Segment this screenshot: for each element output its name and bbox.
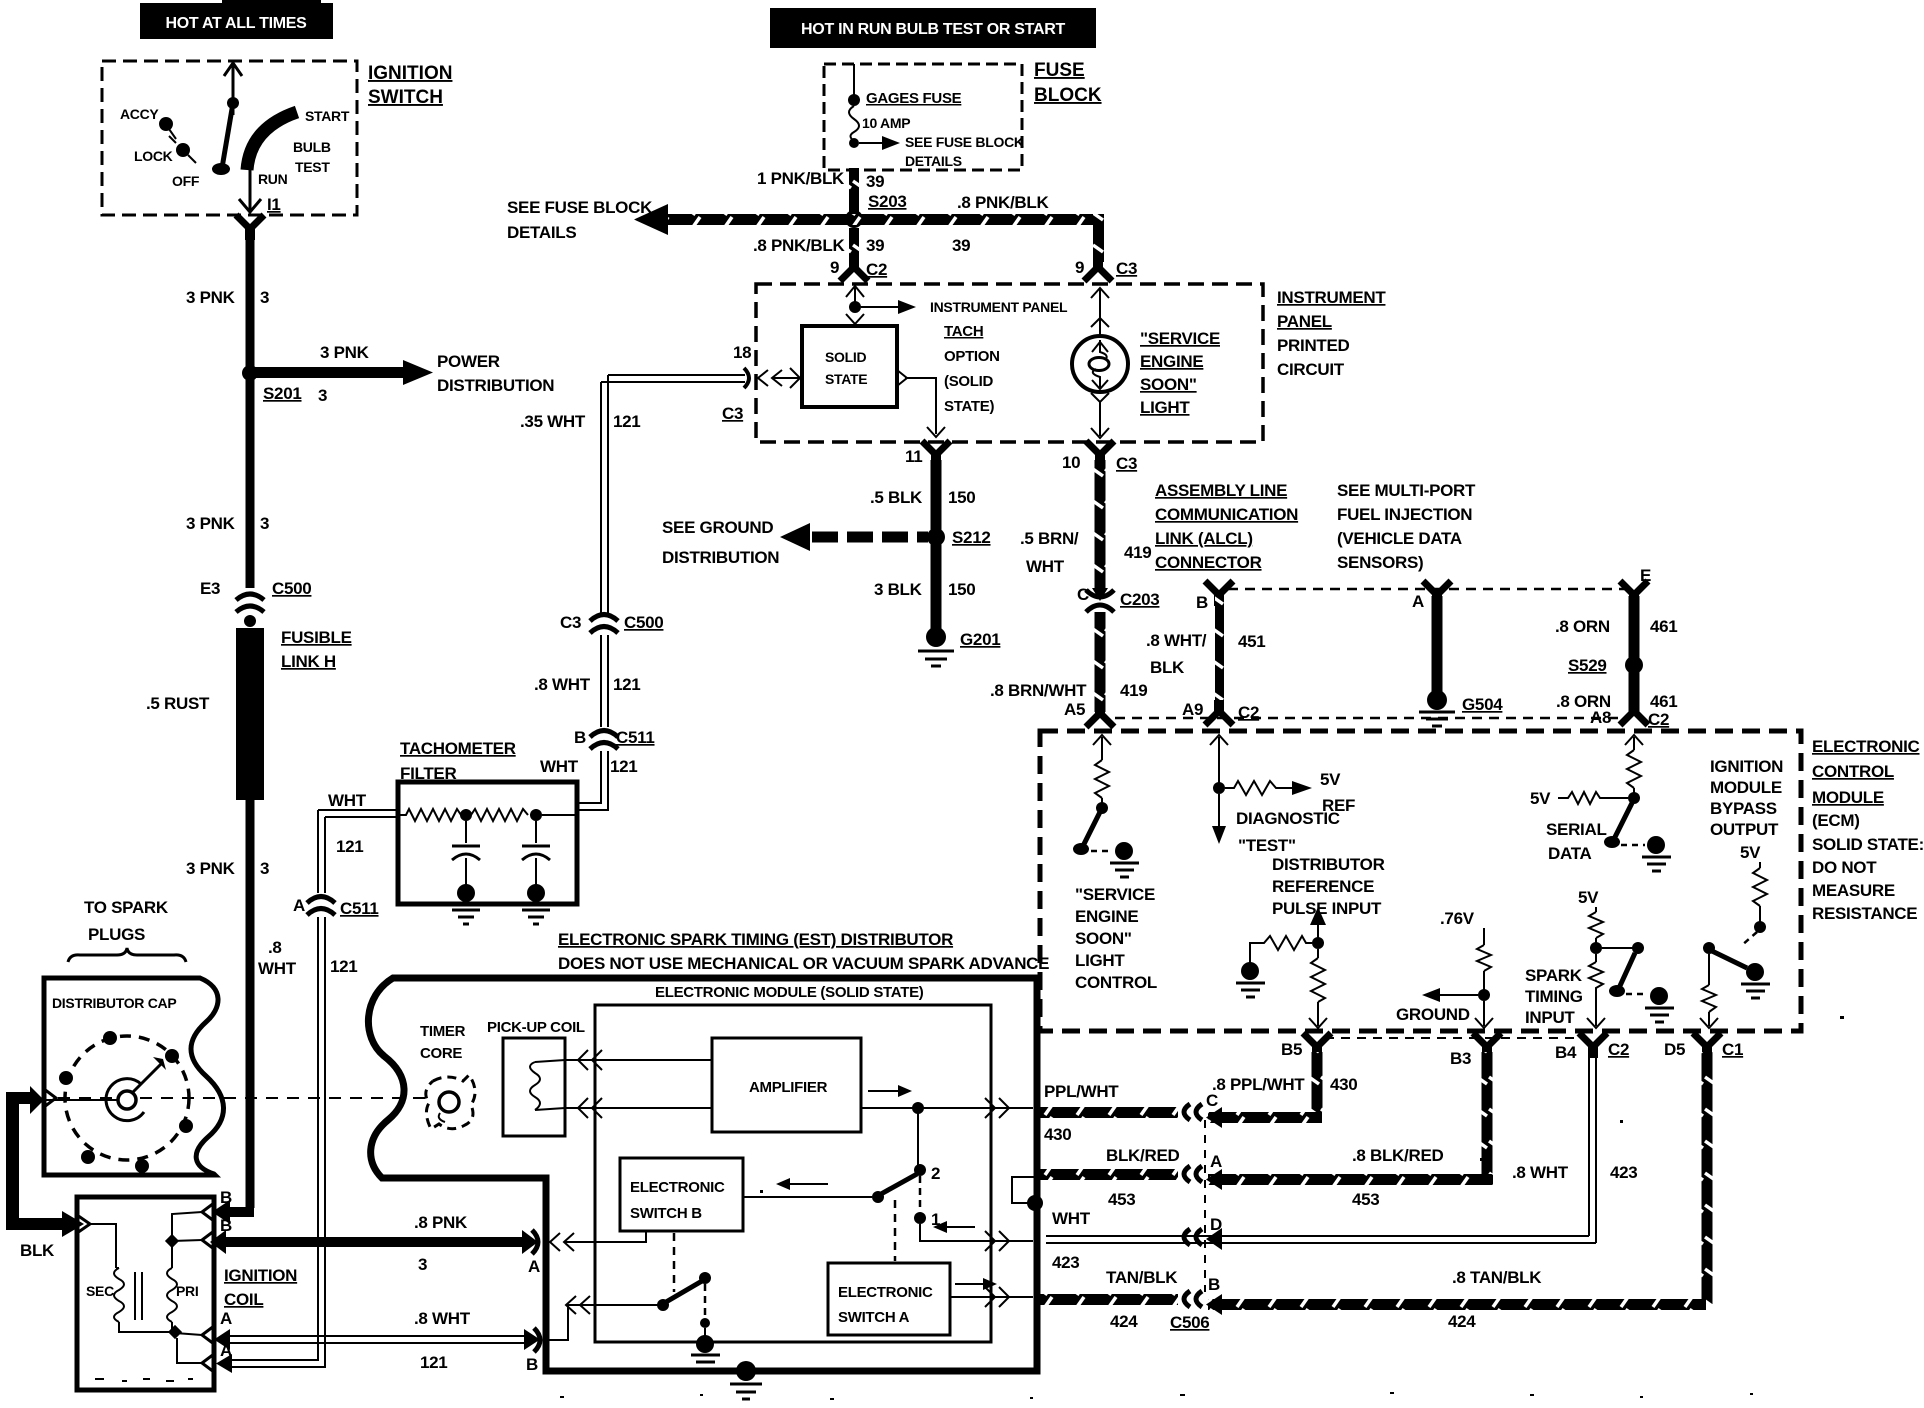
svg-text:9: 9 [830, 258, 839, 277]
switch contact 1 [914, 1176, 1033, 1251]
svg-text:C: C [1077, 585, 1089, 604]
ignition coil terminal A2 [177, 1338, 232, 1372]
ignition coil left entry chevron [77, 1215, 90, 1233]
svg-text:DISTRIBUTOR CAP: DISTRIBUTOR CAP [52, 995, 176, 1011]
svg-text:BULB: BULB [293, 139, 331, 155]
wire WHT into filter left (double line) [318, 791, 398, 856]
wire .8 WHT 121 down to coil A (double line) [216, 917, 357, 1373]
label FUSE BLOCK [1034, 60, 1102, 106]
svg-text:SEE FUSE BLOCK: SEE FUSE BLOCK [905, 134, 1024, 150]
svg-text:COIL: COIL [224, 1290, 263, 1309]
svg-text:A: A [528, 1257, 540, 1276]
svg-text:HOT AT ALL TIMES: HOT AT ALL TIMES [166, 15, 308, 32]
wire pickup to amplifier (upper) [565, 1050, 712, 1070]
connector C506 pin A [1184, 1152, 1222, 1182]
connector C203 pin C [1077, 585, 1159, 612]
wire switch pivot to electronic switch B [743, 1196, 872, 1198]
connector C511 pin B [574, 728, 655, 749]
label SEE MULTI-PORT FUEL INJECTION [1337, 481, 1476, 572]
svg-text:C506: C506 [1170, 1313, 1209, 1332]
svg-text:PRINTED: PRINTED [1277, 336, 1350, 355]
wire WHT 423 thin double main and branch [1046, 1209, 1596, 1272]
svg-text:INSTRUMENT PANEL: INSTRUMENT PANEL [930, 299, 1068, 315]
svg-text:ACCY: ACCY [120, 106, 159, 122]
pick-up coil box [503, 1038, 565, 1136]
svg-text:S529: S529 [1568, 656, 1607, 675]
svg-text:.35 WHT: .35 WHT [520, 412, 586, 431]
svg-text:CORE: CORE [420, 1045, 462, 1062]
svg-text:3 BLK: 3 BLK [874, 580, 923, 599]
wire .8 WHT/BLK 451 hatched [1146, 594, 1265, 712]
svg-text:TO SPARK: TO SPARK [84, 898, 169, 917]
svg-text:LINK H: LINK H [281, 652, 336, 671]
svg-text:.8 WHT: .8 WHT [414, 1309, 471, 1328]
svg-text:C2: C2 [1238, 703, 1259, 722]
splice S203 [845, 210, 863, 228]
svg-text:CONNECTOR: CONNECTOR [1155, 553, 1262, 572]
svg-text:150: 150 [948, 580, 975, 599]
svg-text:B5: B5 [1281, 1040, 1302, 1059]
svg-text:121: 121 [336, 837, 363, 856]
distributor cap outline [44, 978, 224, 1175]
svg-text:DISTRIBUTION: DISTRIBUTION [437, 376, 554, 395]
svg-text:OFF: OFF [172, 173, 200, 189]
svg-text:TIMER: TIMER [420, 1023, 466, 1040]
svg-text:3: 3 [418, 1255, 427, 1274]
ignition switch wiper arm [212, 63, 242, 175]
svg-text:BLOCK: BLOCK [1034, 85, 1102, 106]
svg-text:461: 461 [1650, 692, 1677, 711]
svg-text:C500: C500 [272, 579, 311, 598]
svg-text:121: 121 [613, 412, 640, 431]
svg-text:419: 419 [1124, 543, 1151, 562]
svg-text:PANEL: PANEL [1277, 312, 1332, 331]
label SERVICE ENGINE SOON LIGHT [1140, 329, 1220, 417]
svg-text:SEE MULTI-PORT: SEE MULTI-PORT [1337, 481, 1476, 500]
svg-text:A: A [1412, 592, 1424, 611]
node GAGES FUSE tap [848, 90, 962, 107]
wire 3 BLK 150 [874, 544, 975, 630]
svg-text:3 PNK: 3 PNK [186, 288, 236, 307]
svg-text:SERIAL: SERIAL [1546, 820, 1607, 839]
svg-text:3: 3 [260, 288, 269, 307]
label TIMER CORE [420, 1023, 466, 1062]
svg-text:5V: 5V [1530, 789, 1551, 808]
label SERVICE ENGINE SOON LIGHT CONTROL [1075, 885, 1157, 992]
svg-text:SOLID: SOLID [825, 349, 866, 365]
connector C500 on trunk (E3) [200, 579, 311, 627]
connector D5 C1 [1664, 1033, 1743, 1059]
svg-text:RESISTANCE: RESISTANCE [1812, 904, 1917, 923]
scan speckles bottom [95, 1378, 193, 1382]
svg-text:WHT: WHT [328, 791, 367, 810]
svg-text:A9: A9 [1182, 700, 1203, 719]
svg-text:11: 11 [905, 447, 922, 466]
svg-text:OUTPUT: OUTPUT [1710, 820, 1779, 839]
wire .8 BLK/RED 453 from B3 [1206, 1052, 1493, 1209]
ignition switch START-BULB TEST arc [247, 108, 350, 175]
svg-text:9: 9 [1075, 258, 1084, 277]
solid state tach module box [802, 326, 897, 407]
svg-text:ELECTRONIC: ELECTRONIC [838, 1284, 933, 1301]
ALCL connector dashed outline [1115, 589, 1634, 718]
connector I1 below ignition switch [236, 215, 264, 240]
node instrument panel tap with arrow [849, 299, 1068, 315]
svg-text:39: 39 [866, 172, 884, 191]
svg-text:ENGINE: ENGINE [1140, 352, 1203, 371]
service engine soon light control circuit [1073, 735, 1139, 877]
svg-text:FUEL INJECTION: FUEL INJECTION [1337, 505, 1472, 524]
svg-text:B4: B4 [1555, 1043, 1577, 1062]
svg-text:LOCK: LOCK [134, 148, 173, 164]
connector C506 pin B [1170, 1275, 1220, 1332]
svg-text:B: B [1196, 593, 1208, 612]
svg-text:DO NOT: DO NOT [1812, 858, 1877, 877]
label 3 PNK 3 (lower) [186, 859, 269, 878]
svg-text:A5: A5 [1064, 700, 1085, 719]
svg-text:.8 ORN: .8 ORN [1555, 617, 1610, 636]
svg-text:S212: S212 [952, 528, 991, 547]
svg-text:DOES NOT USE MECHANICAL OR VAC: DOES NOT USE MECHANICAL OR VACUUM SPARK … [558, 954, 1049, 973]
svg-text:CIRCUIT: CIRCUIT [1277, 360, 1345, 379]
ECM dashed box [1040, 731, 1801, 1031]
ignition module bypass output circuit [1700, 757, 1783, 1028]
fuse block dashed box [824, 64, 1022, 170]
svg-text:ELECTRONIC: ELECTRONIC [630, 1179, 725, 1196]
svg-text:.8 PNK/BLK: .8 PNK/BLK [957, 193, 1049, 212]
label 3 PNK 3 (upper) [186, 288, 269, 307]
label TO SPARK PLUGS [68, 898, 186, 962]
svg-text:PULSE INPUT: PULSE INPUT [1272, 899, 1382, 918]
svg-text:PPL/WHT: PPL/WHT [1044, 1082, 1119, 1101]
svg-text:"SERVICE: "SERVICE [1140, 329, 1220, 348]
ground inside module [691, 1335, 720, 1369]
svg-text:MODULE: MODULE [1710, 778, 1782, 797]
ground G201 [918, 627, 1000, 666]
dashed link below switch B [673, 1233, 676, 1292]
label: HOT IN RUN BULB TEST OR START header [770, 8, 1096, 48]
ground on EST case [730, 1361, 762, 1399]
svg-text:TEST: TEST [295, 159, 330, 175]
wire TAN/BLK 424 main [1040, 1268, 1178, 1331]
svg-text:A: A [1210, 1152, 1222, 1171]
wire B entry to reference switch [546, 1296, 660, 1340]
svg-text:.8 PPL/WHT: .8 PPL/WHT [1212, 1075, 1305, 1094]
wire .8 PNK/BLK hatched run to fuse block details (left arrow) [507, 198, 854, 242]
wire switch A output to TAN/BLK exit [950, 1287, 1033, 1307]
svg-text:DISTRIBUTOR: DISTRIBUTOR [1272, 855, 1385, 874]
svg-text:START: START [305, 108, 350, 124]
svg-text:SOON": SOON" [1075, 929, 1132, 948]
svg-text:ELECTRONIC MODULE (SOLID STATE: ELECTRONIC MODULE (SOLID STATE) [655, 984, 924, 1001]
svg-text:121: 121 [420, 1353, 447, 1372]
wire ALCL A to ground [1432, 596, 1443, 694]
svg-text:C500: C500 [624, 613, 663, 632]
svg-text:DETAILS: DETAILS [507, 223, 576, 242]
ignition coil terminal B1 [172, 1188, 232, 1241]
label EST distributor title [558, 930, 1049, 973]
svg-text:TACH: TACH [944, 323, 983, 340]
svg-text:BLK/RED: BLK/RED [1106, 1146, 1179, 1165]
C506 dashed connector line [1204, 1120, 1206, 1292]
svg-text:C511: C511 [340, 899, 379, 918]
svg-text:ENGINE: ENGINE [1075, 907, 1138, 926]
svg-text:10 AMP: 10 AMP [862, 115, 910, 131]
wire BLK/RED 453 main [1040, 1146, 1179, 1209]
svg-text:TIMING: TIMING [1525, 987, 1583, 1006]
wire 121 down to C511 A (double line) [318, 810, 325, 893]
svg-text:430: 430 [1330, 1075, 1357, 1094]
node WHT tap loop [1012, 1177, 1043, 1211]
svg-text:C: C [1206, 1091, 1218, 1110]
connector C2 pin 9 into instrument panel [830, 256, 887, 281]
svg-text:DETAILS: DETAILS [905, 153, 962, 169]
svg-text:5V: 5V [1578, 888, 1599, 907]
connector C506 pin C [1184, 1091, 1218, 1120]
svg-text:SPARK: SPARK [1525, 966, 1583, 985]
svg-text:PICK-UP COIL: PICK-UP COIL [487, 1019, 585, 1036]
svg-text:FUSIBLE: FUSIBLE [281, 628, 352, 647]
ignition coil SEC winding [86, 1224, 172, 1332]
svg-text:ELECTRONIC SPARK TIMING (EST): ELECTRONIC SPARK TIMING (EST) DISTRIBUTO… [558, 930, 953, 949]
label ELECTRONIC CONTROL MODULE (ECM) [1812, 737, 1924, 923]
svg-text:5V: 5V [1740, 843, 1761, 862]
svg-text:C2: C2 [1608, 1040, 1629, 1059]
svg-text:10: 10 [1062, 453, 1080, 472]
svg-text:HOT IN RUN BULB TEST OR START: HOT IN RUN BULB TEST OR START [801, 21, 1065, 38]
wire pickup to amplifier (lower) [565, 1098, 712, 1118]
svg-text:SOLID STATE:: SOLID STATE: [1812, 835, 1924, 854]
svg-text:.5 BLK: .5 BLK [870, 488, 923, 507]
svg-text:C3: C3 [1116, 454, 1137, 473]
wire 3 PNK trunk lower segment [246, 800, 255, 1208]
svg-text:424: 424 [1448, 1312, 1476, 1331]
splice S201 [242, 365, 302, 403]
label 3 PNK 3 (mid) [186, 514, 269, 533]
svg-text:LIGHT: LIGHT [1140, 398, 1190, 417]
connector C506 pin D [1184, 1215, 1222, 1245]
svg-text:A: A [220, 1309, 232, 1328]
svg-text:PLUGS: PLUGS [88, 925, 145, 944]
svg-text:3: 3 [260, 514, 269, 533]
ignition switch RUN output arrow to I1 [239, 170, 281, 214]
connector pin 11 below instrument panel [905, 441, 950, 466]
svg-text:BLK: BLK [20, 1241, 55, 1260]
svg-text:424: 424 [1110, 1312, 1138, 1331]
svg-text:.8 WHT: .8 WHT [534, 675, 591, 694]
.76V ground reference circuit [1396, 909, 1493, 1028]
svg-text:B: B [1208, 1275, 1220, 1294]
svg-text:G504: G504 [1462, 695, 1503, 714]
wire amplifier output to PPL/WHT exit [861, 1098, 1033, 1118]
wire .8 WHT 423 from B4 (thin double) [1512, 1052, 1637, 1243]
wire PPL/WHT 430 main [1040, 1082, 1178, 1144]
svg-text:WHT: WHT [258, 959, 297, 978]
ignition coil terminal B2 [172, 1216, 232, 1249]
wire .5 BLK 150 [870, 460, 975, 530]
svg-text:BLK: BLK [1150, 658, 1185, 677]
svg-text:(ECM): (ECM) [1812, 811, 1860, 830]
electronic switch B box [620, 1158, 743, 1231]
splice S212 [927, 528, 991, 547]
serial data circuit [1530, 735, 1671, 871]
connector A5 at ECM [1064, 700, 1114, 727]
ignition coil PRI winding [165, 1234, 199, 1339]
distributor cap terminal circle [59, 1031, 193, 1173]
svg-text:419: 419 [1120, 681, 1147, 700]
connector C2 pin A8 [1590, 700, 1669, 729]
svg-text:.8 WHT: .8 WHT [1512, 1163, 1569, 1182]
svg-text:.76V: .76V [1440, 909, 1475, 928]
wire .8 TAN/BLK 424 from D5 [1206, 1052, 1713, 1331]
wire .35 WHT 121 vertical run (double line) [520, 375, 745, 617]
fusible link H [146, 628, 352, 800]
electronic module box [595, 1005, 991, 1342]
node see-fuse-block tap with arrow [849, 134, 1024, 169]
svg-text:.8 BRN/WHT: .8 BRN/WHT [990, 681, 1087, 700]
svg-text:DISTRIBUTION: DISTRIBUTION [662, 548, 779, 567]
spark timing input circuit [1525, 888, 1674, 1028]
wire bend into ignition coil B [212, 1200, 254, 1224]
svg-text:3 PNK: 3 PNK [186, 859, 236, 878]
svg-text:B3: B3 [1450, 1049, 1471, 1068]
svg-text:ASSEMBLY LINE: ASSEMBLY LINE [1155, 481, 1287, 500]
svg-text:OPTION: OPTION [944, 348, 1000, 365]
svg-text:STATE: STATE [825, 371, 867, 387]
wire entry chevron on cap [44, 1089, 56, 1107]
dashed rotor shaft line to timer core [58, 1097, 428, 1099]
dashed mechanical link to switch A [894, 1200, 897, 1261]
svg-text:.5 RUST: .5 RUST [146, 694, 210, 713]
timer core symbol [426, 1075, 475, 1129]
svg-text:C3: C3 [1116, 259, 1137, 278]
diagnostic test circuit [1210, 735, 1355, 855]
svg-text:423: 423 [1052, 1253, 1079, 1272]
svg-text:121: 121 [330, 957, 357, 976]
svg-text:451: 451 [1238, 632, 1265, 651]
svg-text:C3: C3 [722, 404, 743, 423]
svg-text:GAGES FUSE: GAGES FUSE [866, 90, 962, 107]
svg-text:WHT: WHT [1026, 557, 1065, 576]
EST connector B (.8 WHT entry) [214, 1309, 540, 1374]
svg-text:CONTROL: CONTROL [1075, 973, 1157, 992]
svg-text:B: B [526, 1355, 538, 1374]
svg-text:C511: C511 [616, 728, 655, 747]
svg-text:453: 453 [1108, 1190, 1135, 1209]
svg-text:MEASURE: MEASURE [1812, 881, 1895, 900]
ignition switch box [102, 61, 357, 215]
svg-text:"TEST": "TEST" [1238, 836, 1296, 855]
svg-text:453: 453 [1352, 1190, 1379, 1209]
wire inside fuse block [853, 64, 855, 100]
wire .8 PNK/BLK down from S203 to C2 [753, 228, 884, 262]
wire entry arrow from C2 [846, 284, 864, 307]
connector C511 pin A [293, 896, 379, 918]
electronic switch A box [828, 1263, 950, 1335]
amplifier box [712, 1038, 861, 1132]
svg-text:A: A [293, 896, 305, 915]
signal arrow right of amplifier [868, 1085, 912, 1097]
svg-text:SEC: SEC [86, 1283, 114, 1299]
wire BLK thick loop to ignition coil [6, 1086, 84, 1260]
svg-text:IGNITION: IGNITION [1710, 757, 1783, 776]
svg-text:.8 BLK/RED: .8 BLK/RED [1352, 1146, 1443, 1165]
svg-text:GROUND: GROUND [1396, 1005, 1470, 1024]
instrument panel printed circuit dashed box [756, 284, 1263, 442]
svg-text:2: 2 [931, 1164, 940, 1183]
svg-text:3: 3 [318, 386, 327, 405]
connector ALCL pin B [1196, 581, 1233, 612]
svg-text:S203: S203 [868, 192, 907, 211]
svg-text:SWITCH A: SWITCH A [838, 1309, 910, 1326]
svg-text:.8 PNK/BLK: .8 PNK/BLK [753, 236, 845, 255]
service engine soon bulb [1072, 288, 1128, 438]
svg-text:COMMUNICATION: COMMUNICATION [1155, 505, 1298, 524]
svg-text:430: 430 [1044, 1125, 1071, 1144]
connector B3 [1450, 1033, 1501, 1068]
svg-text:IGNITION: IGNITION [224, 1266, 297, 1285]
filter capacitor 1 [452, 821, 480, 924]
label POWER DISTRIBUTION [437, 352, 554, 395]
svg-text:SENSORS): SENSORS) [1337, 553, 1423, 572]
svg-text:C1: C1 [1722, 1040, 1743, 1059]
svg-text:SWITCH B: SWITCH B [630, 1205, 702, 1222]
svg-text:B: B [574, 728, 586, 747]
wire A entry to switch B inside module [550, 1231, 646, 1251]
svg-text:3 PNK: 3 PNK [186, 514, 236, 533]
ignition switch ACCY contact [120, 106, 176, 139]
svg-text:SEE GROUND: SEE GROUND [662, 518, 773, 537]
svg-text:121: 121 [613, 675, 640, 694]
wire 1 PNK/BLK 39 from fuse block [757, 168, 907, 213]
svg-text:E3: E3 [200, 579, 220, 598]
connector C500 C3 on WHT run [560, 613, 663, 633]
svg-text:REFERENCE: REFERENCE [1272, 877, 1374, 896]
svg-text:IGNITION: IGNITION [368, 63, 452, 84]
svg-text:WHT: WHT [540, 757, 579, 776]
tachometer filter box [398, 782, 577, 904]
connector ALCL pin A [1412, 581, 1451, 611]
svg-text:LIGHT: LIGHT [1075, 951, 1125, 970]
label TACH OPTION (SOLID STATE) [944, 323, 1000, 415]
svg-text:INPUT: INPUT [1525, 1008, 1575, 1027]
ignition switch label [368, 63, 452, 108]
svg-text:PRI: PRI [176, 1283, 198, 1299]
signal arrow into switch B [776, 1178, 828, 1190]
svg-text:SEE FUSE BLOCK: SEE FUSE BLOCK [507, 198, 653, 217]
svg-text:LINK (ALCL): LINK (ALCL) [1155, 529, 1253, 548]
connector B5 [1281, 1033, 1331, 1059]
svg-text:121: 121 [610, 757, 637, 776]
svg-text:POWER: POWER [437, 352, 500, 371]
svg-text:C2: C2 [1648, 710, 1669, 729]
wire from tap into solid state module [846, 314, 864, 324]
svg-text:5V: 5V [1320, 770, 1341, 789]
filter capacitor 2 [522, 821, 550, 924]
svg-text:FUSE: FUSE [1034, 60, 1085, 81]
svg-text:S201: S201 [263, 384, 302, 403]
svg-text:.8 PNK: .8 PNK [414, 1213, 468, 1232]
wire solid state to pin 11 [790, 368, 945, 437]
connector C3 pin 9 into instrument panel [1075, 256, 1137, 281]
svg-text:G201: G201 [960, 630, 1000, 649]
wire .8 BRN/WHT 419 hatched [990, 612, 1147, 712]
svg-text:39: 39 [952, 236, 970, 255]
svg-text:DIAGNOSTIC: DIAGNOSTIC [1236, 809, 1340, 828]
fuse element 10 AMP [849, 106, 910, 141]
label IGNITION COIL [224, 1266, 297, 1309]
wire .8 PPL/WHT 430 from B5 [1206, 1052, 1357, 1128]
